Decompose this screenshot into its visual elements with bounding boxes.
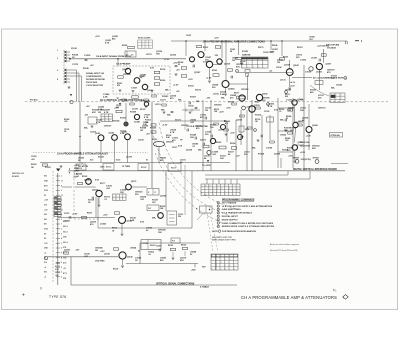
svg-text:+12V: +12V (219, 112, 224, 114)
svg-text:R1091: R1091 (31, 164, 37, 166)
svg-text:4.7K: 4.7K (104, 111, 109, 114)
svg-text:5: 5 (57, 70, 58, 72)
svg-text:Q1169: Q1169 (274, 154, 281, 156)
svg-text:X100: X100 (116, 160, 120, 162)
svg-text:Q1064: Q1064 (298, 98, 303, 101)
svg-text:2: 2 (236, 71, 237, 73)
svg-text:MODE SUPPLY: MODE SUPPLY (222, 219, 238, 221)
svg-text:10K: 10K (300, 110, 304, 112)
svg-text:0: 0 (258, 59, 259, 61)
svg-text:+12V: +12V (188, 79, 193, 81)
svg-text:C1173: C1173 (72, 64, 79, 66)
svg-text:2.2K: 2.2K (98, 109, 103, 111)
svg-text:5: 5 (61, 262, 62, 264)
svg-text:5: 5 (61, 248, 62, 250)
svg-text:47K: 47K (180, 259, 184, 262)
svg-text:(DECOUPLED): (DECOUPLED) (326, 45, 339, 47)
svg-text:X1: X1 (146, 160, 148, 162)
svg-text:1M: 1M (95, 250, 98, 252)
svg-text:L1078: L1078 (126, 157, 133, 159)
svg-text:100X: 100X (100, 167, 105, 169)
svg-text:47K: 47K (200, 116, 204, 119)
svg-text:R1037: R1037 (87, 213, 92, 215)
svg-text:R1015 900K: R1015 900K (86, 82, 98, 84)
svg-text:Q1117: Q1117 (200, 140, 207, 142)
svg-text:L1151: L1151 (146, 54, 153, 56)
svg-text:-12.2V: -12.2V (55, 263, 61, 265)
svg-text:47: 47 (138, 250, 140, 253)
svg-text:3: 3 (345, 78, 346, 80)
svg-text:GAIN SWITCHING: GAIN SWITCHING (222, 208, 241, 211)
svg-text:R1143: R1143 (242, 50, 249, 53)
svg-text:R1146: R1146 (272, 44, 277, 47)
svg-text:K1140: K1140 (143, 242, 148, 245)
svg-text:S1173: S1173 (175, 120, 182, 122)
svg-text:+12V: +12V (218, 130, 223, 132)
svg-text:1: 1 (218, 202, 219, 204)
svg-text:C1071: C1071 (172, 147, 177, 149)
svg-text:3: 3 (61, 190, 62, 192)
svg-text:.001: .001 (309, 39, 313, 41)
svg-text:CH A VERTICAL ATTENUATOR BOARD: CH A VERTICAL ATTENUATOR BOARD (100, 99, 143, 102)
svg-text:Q1137: Q1137 (298, 142, 303, 144)
svg-text:S1164: S1164 (255, 114, 262, 117)
svg-text:1M: 1M (205, 110, 208, 112)
svg-text:2: 2 (61, 243, 62, 245)
svg-text:TP1090: TP1090 (313, 158, 319, 160)
svg-text:R1131: R1131 (55, 266, 60, 268)
svg-text:9: 9 (61, 253, 62, 255)
svg-text:L1190: L1190 (138, 140, 145, 142)
svg-text:TYPE 576: TYPE 576 (49, 295, 66, 299)
svg-text:R1021: R1021 (212, 70, 217, 72)
svg-text:10K: 10K (220, 158, 224, 160)
svg-text:BIT 2: BIT 2 (63, 273, 67, 275)
svg-text:0: 0 (225, 259, 226, 261)
svg-text:.001: .001 (64, 121, 68, 123)
svg-text:D0: D0 (44, 238, 46, 240)
svg-text:R1177: R1177 (100, 183, 105, 185)
svg-text:C1059: C1059 (156, 246, 161, 248)
svg-text:Q1148: Q1148 (109, 132, 114, 135)
svg-text:Q1153: Q1153 (254, 105, 260, 107)
svg-text:330: 330 (178, 216, 181, 218)
svg-text:6: 6 (218, 219, 219, 221)
svg-text:.01: .01 (279, 111, 282, 113)
svg-text:-12V (DCPL): -12V (DCPL) (300, 159, 311, 161)
svg-text:TP1089: TP1089 (293, 158, 299, 160)
svg-text:+3.5V: +3.5V (300, 152, 306, 154)
svg-text:1M: 1M (140, 130, 143, 132)
svg-text:4.7K: 4.7K (105, 41, 110, 44)
svg-text:1: 1 (248, 63, 249, 65)
svg-text:C1016: C1016 (84, 55, 91, 57)
svg-text:0: 0 (105, 120, 106, 122)
svg-text:0: 0 (221, 262, 222, 264)
svg-text:C1196: C1196 (276, 67, 281, 69)
svg-text:R1105: R1105 (141, 167, 146, 169)
svg-text:CR1170: CR1170 (318, 108, 326, 110)
svg-text:3: 3 (218, 209, 219, 211)
svg-text:U1064: U1064 (130, 247, 137, 250)
svg-text:U1053: U1053 (285, 90, 292, 92)
svg-text:1: 1 (105, 118, 106, 120)
svg-text:+3.5V: +3.5V (162, 125, 168, 127)
svg-text:TO +225V: TO +225V (202, 165, 211, 167)
svg-text:0: 0 (230, 259, 231, 261)
svg-text:1M: 1M (98, 112, 101, 114)
svg-text:Revised OCT about 576 and S/N: Revised OCT about 576 and S/N (270, 249, 298, 252)
svg-text:+12V: +12V (214, 38, 219, 40)
svg-text:10 A COLLECTOR SUPPLY AND ATTE: 10 A COLLECTOR SUPPLY AND ATTENUATORS (222, 205, 273, 208)
svg-text:+: + (202, 185, 203, 187)
svg-text:SEMICONDUCTOR TYPES: SEMICONDUCTOR TYPES (212, 239, 236, 241)
svg-text:L1059: L1059 (316, 72, 323, 74)
svg-text:+12V: +12V (306, 136, 311, 138)
svg-text:470: 470 (117, 84, 120, 87)
svg-text:R1143: R1143 (181, 243, 186, 246)
svg-text:Q1129: Q1129 (284, 65, 291, 67)
svg-text:C1091: C1091 (31, 156, 37, 158)
svg-text:+5: +5 (44, 267, 46, 269)
svg-text:L1084: L1084 (100, 223, 107, 226)
svg-text:4.7K: 4.7K (268, 105, 273, 108)
svg-text:L1078: L1078 (132, 109, 139, 111)
svg-text:R1101: R1101 (77, 168, 82, 170)
svg-text:Q1072: Q1072 (147, 90, 153, 92)
svg-text:3: 3 (57, 58, 58, 60)
svg-text:Based on serial number sequenc: Based on serial number sequence (270, 244, 299, 246)
svg-text:47K: 47K (312, 147, 316, 150)
svg-text:R1182: R1182 (82, 176, 87, 178)
svg-text:+5: +5 (44, 253, 46, 255)
svg-text:C1029: C1029 (266, 148, 273, 150)
svg-text:CR1183: CR1183 (241, 89, 249, 91)
svg-text:5: 5 (233, 191, 234, 193)
svg-text:1: 1 (225, 194, 226, 196)
svg-text:Q1153: Q1153 (170, 55, 177, 57)
svg-text:820: 820 (285, 96, 288, 98)
svg-text:0: 0 (213, 194, 214, 196)
svg-text:CR1145: CR1145 (112, 120, 120, 123)
svg-text:5.6K: 5.6K (220, 94, 225, 96)
svg-text:DIVIDER NETWORK: DIVIDER NETWORK (86, 79, 106, 81)
svg-text:2: 2 (61, 176, 62, 178)
svg-text:10K: 10K (156, 53, 160, 55)
svg-text:0.6V: 0.6V (140, 222, 145, 224)
svg-text:R1038: R1038 (230, 143, 235, 145)
svg-text:X100: X100 (44, 190, 48, 192)
svg-text:-12V: -12V (214, 55, 219, 57)
svg-text:11: 11 (61, 209, 63, 211)
svg-text:0: 0 (213, 191, 214, 193)
svg-text:2: 2 (61, 272, 62, 274)
svg-text:D0: D0 (44, 233, 46, 235)
svg-text:X10: X10 (90, 160, 93, 162)
svg-text:2.2K: 2.2K (103, 97, 108, 99)
svg-text:R1107: R1107 (190, 97, 197, 99)
svg-text:47K: 47K (236, 65, 240, 68)
svg-text:Q1081: Q1081 (84, 180, 91, 182)
svg-text:0.6V: 0.6V (274, 110, 279, 112)
svg-text:+75V: +75V (114, 108, 119, 110)
svg-text:0: 0 (116, 196, 117, 198)
svg-text:R1135: R1135 (140, 109, 145, 111)
svg-text:7: 7 (218, 223, 219, 225)
svg-text:Q1057: Q1057 (326, 64, 332, 66)
svg-text:C1073: C1073 (64, 213, 69, 215)
svg-text:+3.5V: +3.5V (173, 85, 179, 87)
svg-text:1: 1 (221, 188, 222, 190)
svg-text:Q1109: Q1109 (236, 120, 243, 122)
svg-text:AT +12 ALIGNMENT SEE NOTE: AT +12 ALIGNMENT SEE NOTE (313, 77, 344, 80)
svg-text:7: 7 (61, 224, 62, 226)
svg-text:8: 8 (57, 79, 58, 81)
svg-text:L1119: L1119 (155, 104, 161, 106)
svg-text:+12V: +12V (230, 133, 235, 135)
svg-text:+5: +5 (44, 277, 46, 279)
svg-text:Q1175: Q1175 (131, 181, 136, 183)
svg-text:Q1031: Q1031 (64, 250, 71, 252)
svg-text:0: 0 (205, 194, 206, 196)
svg-text:+75V: +75V (173, 63, 178, 65)
svg-text:CH A PREAMP & NORMAL AMPLIFIER: CH A PREAMP & NORMAL AMPLIFIER CONNECTIO… (203, 40, 265, 43)
svg-text:R1022: R1022 (216, 142, 221, 144)
svg-text:1.5 A TRANSISTOR DETAILS: 1.5 A TRANSISTOR DETAILS (222, 212, 253, 215)
svg-text:DIGITAL INPUT: DIGITAL INPUT (222, 215, 239, 218)
svg-text:R1161: R1161 (120, 118, 127, 120)
svg-text:0: 0 (205, 185, 206, 187)
svg-text:13: 13 (61, 181, 63, 183)
svg-text:U1127: U1127 (90, 132, 97, 134)
svg-text:CR1107: CR1107 (104, 126, 112, 128)
svg-text:S1133: S1133 (98, 157, 105, 159)
svg-text:K1010: K1010 (152, 139, 157, 141)
svg-text:470: 470 (225, 122, 228, 125)
svg-text:Q1195: Q1195 (160, 196, 167, 198)
svg-text:.001: .001 (31, 159, 35, 161)
svg-text:-0.2V: -0.2V (290, 86, 295, 88)
svg-text:10K: 10K (158, 232, 162, 234)
svg-text:4.7K: 4.7K (144, 116, 149, 119)
svg-text:1: 1 (113, 199, 114, 201)
svg-text:R1036: R1036 (160, 80, 165, 82)
svg-text:+: + (142, 41, 143, 43)
svg-text:CH A PROGRAMMABLE ATTENUATOR A: CH A PROGRAMMABLE ATTENUATOR ASSY (57, 153, 108, 156)
svg-text:15K: 15K (120, 192, 124, 194)
svg-text:C1130: C1130 (286, 100, 293, 102)
svg-text:1M: 1M (31, 167, 34, 169)
svg-text:S1094: S1094 (282, 149, 289, 152)
svg-text:L1040: L1040 (134, 121, 141, 124)
svg-text:22: 22 (178, 64, 180, 66)
svg-text:+: + (263, 63, 264, 65)
svg-text:COMPENSATED: COMPENSATED (86, 75, 102, 78)
svg-text:R1141: R1141 (168, 244, 173, 247)
svg-text:R1101: R1101 (203, 47, 208, 49)
svg-text:0.6V: 0.6V (178, 146, 183, 148)
svg-text:CASE CONNECTIONS & INTERLOCK S: CASE CONNECTIONS & INTERLOCK SWITCHES (222, 222, 274, 225)
svg-text:0.6V: 0.6V (95, 180, 100, 182)
svg-text:+75V: +75V (246, 107, 251, 109)
svg-text:Q1128: Q1128 (293, 65, 299, 67)
svg-text:R1038: R1038 (83, 68, 89, 70)
svg-text:S1010 COUPL: S1010 COUPL (138, 38, 151, 40)
svg-text:C1147: C1147 (186, 34, 191, 37)
svg-text:Q1023: Q1023 (92, 190, 98, 192)
svg-text:R1136: R1136 (113, 269, 118, 271)
svg-text:+75V: +75V (288, 156, 293, 158)
svg-text:CR1099: CR1099 (123, 74, 131, 76)
svg-text:CR1170: CR1170 (181, 125, 189, 127)
svg-text:R1072: R1072 (297, 47, 303, 49)
svg-text:C1067: C1067 (131, 88, 138, 90)
svg-text:L1155: L1155 (213, 94, 220, 96)
svg-text:R1188: R1188 (130, 112, 137, 114)
svg-text:L1082: L1082 (64, 221, 71, 223)
svg-text:Q1145: Q1145 (122, 131, 127, 134)
svg-text:X100: X100 (44, 229, 48, 231)
svg-text:+75V: +75V (226, 108, 231, 110)
svg-text:PROGRAMMING COMMANDS: PROGRAMMING COMMANDS (222, 198, 255, 201)
svg-text:R1126: R1126 (112, 228, 117, 230)
svg-text:C1131: C1131 (55, 272, 60, 274)
svg-text:9: 9 (61, 233, 62, 235)
svg-text:L1131: L1131 (280, 80, 287, 82)
svg-text:C1159: C1159 (264, 111, 269, 113)
svg-text:PARTIAL A10: PARTIAL A10 (12, 172, 24, 175)
svg-text:1M: 1M (232, 60, 235, 62)
svg-text:L1199: L1199 (104, 254, 111, 256)
svg-text:5: 5 (218, 216, 219, 218)
svg-text:0.6V: 0.6V (150, 68, 155, 70)
svg-text:.001: .001 (285, 140, 289, 142)
svg-text:5: 5 (61, 219, 62, 221)
svg-text:R1194: R1194 (258, 153, 265, 156)
svg-text:R1033: R1033 (162, 96, 169, 98)
svg-text:100 V RANGE: 100 V RANGE (222, 201, 237, 204)
svg-text:1: 1 (234, 265, 235, 267)
svg-text:-12V: -12V (75, 250, 80, 252)
svg-text:D1: D1 (44, 195, 46, 197)
svg-text:.001: .001 (55, 275, 59, 277)
svg-text:GAIN SW: GAIN SW (242, 54, 251, 57)
svg-text:2: 2 (258, 66, 259, 68)
svg-text:+3.5V: +3.5V (206, 78, 212, 80)
svg-text:47K: 47K (92, 111, 96, 114)
svg-text:C1033: C1033 (188, 106, 194, 108)
svg-text:0: 0 (212, 268, 213, 270)
svg-text:R1128: R1128 (150, 128, 157, 130)
svg-text:+12V: +12V (103, 215, 108, 217)
svg-text:+SIG: +SIG (191, 270, 196, 272)
svg-text:2: 2 (225, 265, 226, 267)
svg-text:5: 5 (253, 59, 254, 61)
svg-text:5: 5 (254, 130, 255, 132)
svg-text:C1016: C1016 (305, 72, 312, 74)
svg-text:1M: 1M (277, 62, 280, 64)
svg-text:+100V: +100V (74, 165, 80, 167)
svg-text:+: + (146, 47, 147, 49)
svg-text:5: 5 (61, 267, 62, 269)
svg-text:1M: 1M (288, 110, 291, 112)
svg-text:Q1019: Q1019 (224, 64, 231, 66)
svg-text:2: 2 (216, 265, 217, 267)
svg-text:X10: X10 (44, 262, 47, 264)
svg-text:R1107: R1107 (171, 168, 176, 170)
svg-text:Q1090: Q1090 (312, 125, 318, 127)
svg-text:S1073: S1073 (195, 90, 202, 92)
svg-text:L1028: L1028 (311, 58, 318, 60)
svg-text:1M: 1M (331, 78, 334, 80)
svg-text:0: 0 (230, 265, 231, 267)
svg-text:X10: X10 (44, 205, 47, 207)
svg-text:& TABLE: & TABLE (200, 285, 209, 288)
svg-text:Q1199: Q1199 (122, 69, 128, 71)
svg-text:Q1139: Q1139 (186, 150, 193, 152)
svg-text:2: 2 (218, 206, 219, 208)
svg-text:R1065: R1065 (122, 45, 127, 47)
svg-text:ATTEN BAL: ATTEN BAL (331, 134, 340, 137)
svg-text:S1115: S1115 (188, 86, 195, 88)
svg-text:FOR REGULATION EXPLANATION: FOR REGULATION EXPLANATION (222, 230, 256, 233)
svg-text:+12V: +12V (95, 36, 100, 38)
svg-text:15K: 15K (290, 130, 294, 132)
svg-text:2: 2 (225, 268, 226, 270)
svg-text:BOARD: BOARD (12, 175, 20, 178)
svg-text:L1071: L1071 (160, 100, 167, 102)
svg-text:1M: 1M (145, 122, 148, 124)
svg-text:+: + (120, 199, 121, 201)
svg-text:SERIES MODE LIGHTS & STORAGE I: SERIES MODE LIGHTS & STORAGE INDICATORS (222, 225, 275, 228)
svg-text:CH A TRIG: CH A TRIG (95, 259, 105, 262)
svg-text:2.2K: 2.2K (130, 220, 135, 222)
svg-text:DIGITAL VERTICAL INTERFACE BOA: DIGITAL VERTICAL INTERFACE BOARD (293, 168, 337, 171)
svg-text:68: 68 (230, 51, 232, 53)
svg-text:P/O A10: P/O A10 (30, 99, 38, 102)
svg-text:13: 13 (61, 195, 63, 197)
svg-text:-12V: -12V (206, 98, 211, 100)
svg-text:C1053: C1053 (263, 52, 269, 54)
svg-text:C1111: C1111 (74, 171, 79, 173)
svg-text:R1103: R1103 (106, 167, 111, 169)
svg-text:U1142: U1142 (336, 84, 343, 87)
svg-text:0.6V: 0.6V (203, 62, 208, 64)
svg-text:+3.5V: +3.5V (72, 214, 78, 216)
svg-text:CH A PREAMP: CH A PREAMP (116, 63, 131, 66)
svg-text:Q1034: Q1034 (228, 88, 235, 91)
svg-text:CH A PROGRAMMABLE AMP & ATTENU: CH A PROGRAMMABLE AMP & ATTENUATORS (241, 295, 337, 300)
svg-text:+: + (146, 44, 147, 46)
svg-text:Q1147: Q1147 (262, 93, 268, 96)
svg-text:VOLTAGE: VOLTAGE (327, 46, 337, 49)
svg-text:P1070: P1070 (45, 167, 52, 169)
svg-text:+4.1V: +4.1V (290, 81, 296, 84)
svg-text:SELECTED: SELECTED (300, 145, 311, 147)
svg-text:NOTE: NOTE (212, 231, 218, 233)
svg-text:Q1107: Q1107 (194, 72, 201, 74)
svg-text:10K: 10K (190, 137, 194, 139)
svg-text:5: 5 (213, 188, 214, 190)
svg-text:C1182: C1182 (300, 60, 307, 62)
svg-text:1: 1 (225, 185, 226, 187)
svg-text:R1051: R1051 (283, 57, 288, 59)
svg-text:5: 5 (109, 120, 110, 122)
svg-text:+: + (22, 293, 25, 299)
svg-text:4.7K: 4.7K (96, 121, 101, 124)
svg-text:+: + (209, 188, 210, 190)
svg-text:VERTICAL SIGNAL CONNECTIONS: VERTICAL SIGNAL CONNECTIONS (156, 282, 195, 285)
